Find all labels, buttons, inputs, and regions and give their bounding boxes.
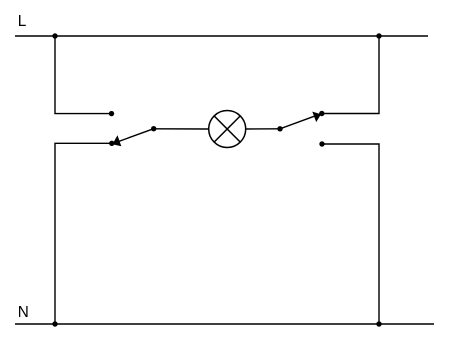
- junction dot N left: [52, 321, 57, 326]
- node S1 bottom throw terminal: [109, 141, 114, 146]
- lamp E1: [209, 111, 246, 148]
- junction dot L right: [376, 33, 381, 38]
- wire L rail: [15, 35, 428, 37]
- wire N rail: [15, 323, 434, 325]
- wire lamp to S2 pole: [246, 128, 280, 130]
- wire S2 top throw to L: [322, 36, 379, 114]
- wire S2 bottom throw to N: [322, 144, 379, 324]
- switch S2 lever: [280, 115, 319, 129]
- switch S2 arrowhead: [312, 112, 321, 123]
- node S2 pole terminal: [277, 126, 282, 131]
- svg-text:L: L: [18, 13, 27, 30]
- wire S1 pole to lamp: [154, 128, 209, 130]
- wire N to S1 bottom throw: [55, 143, 112, 324]
- wire L to S1 top throw: [55, 36, 112, 114]
- node S2 top throw terminal: [319, 111, 324, 116]
- svg-text:N: N: [18, 304, 29, 321]
- junction dot L left: [52, 33, 57, 38]
- switch S1 arrowhead: [112, 135, 121, 146]
- junction dot N right: [376, 321, 381, 326]
- node S2 bottom throw terminal: [319, 141, 324, 146]
- node S1 pole terminal: [151, 126, 156, 131]
- node S1 top throw terminal: [109, 111, 114, 116]
- switch S1 lever: [115, 129, 154, 143]
